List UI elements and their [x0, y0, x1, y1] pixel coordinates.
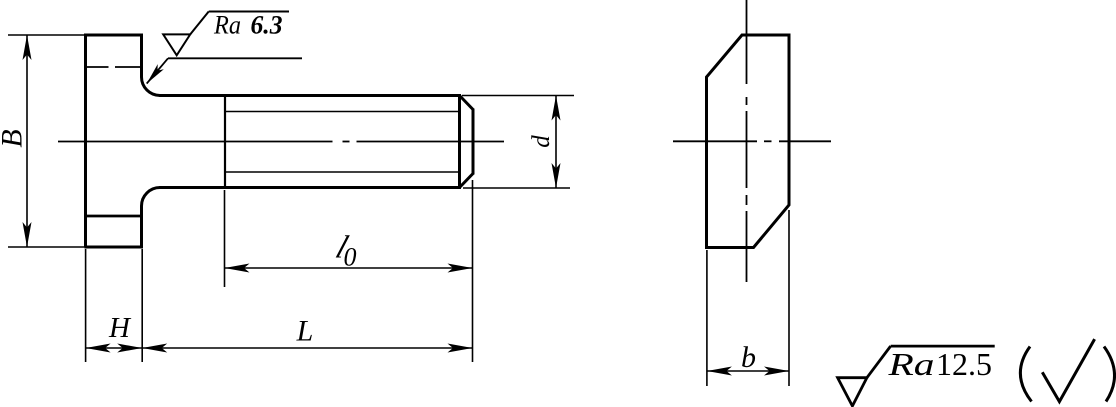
- svg-text:Ra: Ra: [213, 11, 241, 40]
- bolt head outline: [85, 34, 143, 249]
- parenthesis close: [1104, 347, 1115, 402]
- dimension B line: [26, 35, 28, 247]
- dimension b extension lines: [707, 210, 789, 386]
- leader line Ra 6.3: [147, 58, 302, 83]
- svg-text:0: 0: [344, 243, 357, 272]
- dimension H extension lines: [86, 249, 143, 362]
- svg-text:d: d: [528, 135, 555, 148]
- svg-text:B: B: [0, 129, 29, 147]
- head bottom chamfer line: [86, 215, 141, 218]
- svg-text:12.5: 12.5: [936, 346, 992, 382]
- svg-text:L: L: [296, 315, 314, 348]
- parenthesis open: [1020, 347, 1031, 402]
- shank outline: [159, 94, 473, 189]
- dimension b line: [707, 370, 789, 372]
- end view outline: [707, 35, 790, 248]
- dimension d extension lines: [462, 96, 574, 189]
- surface finish symbol Ra 12.5: [838, 346, 995, 406]
- thread minor diameter lines: [225, 112, 460, 173]
- dimension d line: [555, 96, 557, 189]
- check mark: [1042, 339, 1094, 402]
- svg-text:b: b: [741, 341, 756, 374]
- svg-text:H: H: [108, 312, 132, 344]
- surface finish symbol Ra 6.3: [163, 12, 289, 56]
- axis center line: [58, 141, 504, 143]
- end view horizontal center line: [673, 140, 831, 142]
- svg-text:Ra: Ra: [887, 346, 934, 382]
- dimension l0 line: [225, 267, 473, 269]
- thread start line: [224, 96, 226, 188]
- dimension B extension lines: [8, 35, 85, 247]
- svg-text:6.3: 6.3: [251, 11, 283, 40]
- fillet top: [142, 77, 161, 96]
- head top chamfer line (with gap): [86, 66, 141, 68]
- end view vertical center line: [746, 0, 748, 282]
- dimension L line: [142, 347, 472, 349]
- dimension H line: [86, 347, 143, 349]
- fillet bottom: [142, 188, 161, 207]
- dimension l0 extension lines: [225, 180, 473, 362]
